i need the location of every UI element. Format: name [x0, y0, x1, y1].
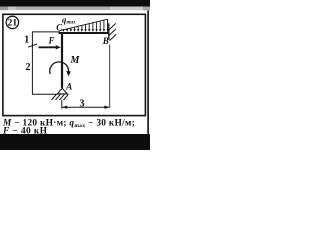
svg-text:max: max — [67, 19, 77, 25]
svg-text:2: 2 — [26, 62, 31, 73]
svg-text:1: 1 — [24, 34, 29, 45]
svg-text:F: F — [47, 36, 54, 46]
svg-text:21: 21 — [8, 19, 18, 29]
svg-text:F − 40 кН: F − 40 кН — [2, 126, 48, 136]
svg-text:B: B — [102, 36, 109, 46]
svg-text:M: M — [70, 55, 81, 66]
svg-text:3: 3 — [80, 98, 85, 109]
svg-text:A: A — [65, 81, 72, 91]
